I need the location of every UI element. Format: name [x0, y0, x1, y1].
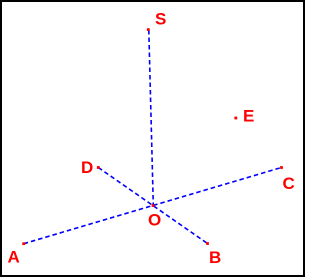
svg-text:E: E	[243, 106, 254, 125]
svg-text:S: S	[155, 9, 166, 28]
svg-text:C: C	[283, 174, 295, 193]
svg-text:O: O	[148, 210, 161, 229]
svg-text:A: A	[8, 248, 20, 267]
svg-text:D: D	[81, 158, 93, 177]
svg-text:B: B	[209, 248, 221, 267]
